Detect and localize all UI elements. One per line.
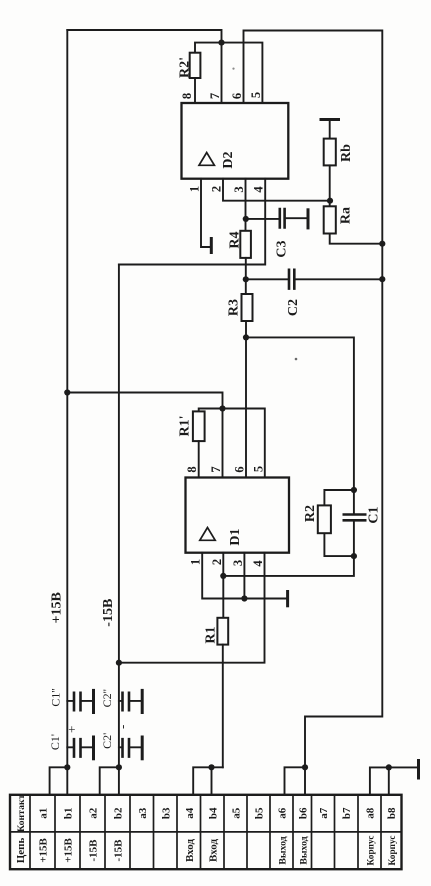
node Ra/Rb/D2 pin2 — [327, 198, 333, 204]
capacitor C2' — [119, 746, 141, 748]
svg-text:C3: C3 — [275, 240, 290, 257]
wire R1' top to D1 pin5 (y=408.5 link) — [199, 409, 265, 478]
svg-text:D1: D1 — [228, 528, 243, 545]
wire D1 pin8 to R1' bottom — [198, 441, 200, 477]
wire D2 pin3 to R4 — [245, 179, 247, 231]
node D1 pin7/R1'/pin5 — [219, 405, 225, 411]
wire D2 pin2 to Ra/Rb node — [223, 179, 330, 201]
wire Rb top stub — [329, 120, 331, 139]
wire D1 pin2 through R1 to input — [222, 553, 224, 618]
svg-text:b6: b6 — [298, 807, 310, 819]
node R4/C2/R3 — [243, 276, 249, 282]
table middle horizontal line — [10, 831, 402, 833]
wire C2 right stub to right rail — [295, 278, 382, 280]
svg-text:R4: R4 — [228, 231, 243, 248]
wire +15V rail (left outer) — [66, 30, 68, 795]
svg-text:8: 8 — [185, 466, 199, 472]
svg-text:-15В: -15В — [101, 599, 116, 627]
svg-text:3: 3 — [232, 186, 246, 192]
svg-text:a8: a8 — [365, 807, 377, 819]
wire connector a4/b4 input — [193, 767, 223, 795]
wire +15V rail to D1 pin7 — [67, 393, 222, 478]
svg-text:C1': C1' — [48, 734, 62, 750]
svg-text:C2: C2 — [286, 299, 301, 316]
svg-text:a4: a4 — [184, 807, 196, 819]
svg-text:a2: a2 — [88, 807, 100, 819]
speck artifact 2 — [295, 358, 298, 361]
svg-text:+15В: +15В — [63, 838, 75, 863]
node C1/R2 top — [351, 487, 357, 493]
wire C3 left stub — [246, 218, 279, 220]
ground bar (C3) — [307, 210, 310, 228]
svg-text:C2': C2' — [100, 733, 114, 749]
svg-text:b1: b1 — [63, 807, 75, 819]
svg-text:a1: a1 — [38, 808, 50, 819]
table column lines — [30, 795, 381, 869]
wire connector a6/b6 output — [285, 767, 306, 795]
wire connector a2/b2 to -15V rail — [100, 767, 119, 795]
svg-text:a3: a3 — [137, 807, 149, 819]
svg-text:b7: b7 — [341, 807, 353, 819]
svg-text:Ra: Ra — [339, 207, 354, 224]
svg-text:7: 7 — [208, 93, 222, 99]
wire connector a8/b8 chassis — [370, 767, 418, 794]
resistor R1 — [217, 618, 228, 645]
wire D1 pin4 to -15V rail — [119, 553, 265, 663]
svg-text:1: 1 — [189, 559, 203, 565]
node +15V at connector — [64, 764, 70, 770]
capacitor C2 — [289, 270, 294, 289]
node Ra bottom on right rail — [379, 241, 385, 247]
svg-text:Корпус: Корпус — [388, 836, 398, 866]
resistor R1' — [193, 411, 205, 441]
svg-text:R2': R2' — [178, 57, 193, 78]
resistor R4 — [240, 231, 251, 258]
svg-text:b5: b5 — [254, 807, 266, 819]
op-amp D2 triangle — [199, 153, 214, 166]
svg-text:R1': R1' — [178, 416, 193, 437]
terminal bar (C1'') — [92, 690, 95, 712]
node +15V to D1 pin7 — [64, 389, 70, 395]
wire R2' top to D2 pin5 (y=42.6 link) — [195, 43, 262, 103]
table header text — [15, 794, 398, 865]
terminal bar (C2') — [141, 737, 144, 759]
svg-text:+: + — [64, 726, 79, 733]
svg-text:a6: a6 — [277, 807, 289, 819]
wire -15V rail — [118, 265, 120, 795]
svg-text:6: 6 — [230, 93, 244, 99]
terminal bar (C2'') — [141, 690, 144, 712]
svg-text:R2: R2 — [303, 505, 318, 522]
svg-text:Вход: Вход — [207, 839, 219, 862]
wire C2 left stub from node — [246, 278, 289, 280]
ground bar (D2 pin1) — [210, 239, 213, 253]
wire top line from +15V rail to D2 pin7 — [67, 30, 221, 103]
terminal bar (C1') — [92, 737, 95, 759]
svg-text:b8: b8 — [386, 807, 398, 819]
svg-text:-: - — [115, 725, 130, 729]
wire Rb bottom to node — [329, 165, 331, 206]
wire R1 bottom to input connector — [222, 645, 224, 768]
node output b6 — [302, 764, 308, 770]
wire C1 bottom to node — [223, 521, 354, 576]
svg-text:1: 1 — [188, 186, 202, 192]
svg-text:b2: b2 — [113, 807, 125, 819]
svg-text:Корпус: Корпус — [367, 836, 377, 866]
node R3/D1 pin6 feedback — [243, 334, 249, 340]
resistor Ra — [324, 206, 336, 233]
svg-text:+15В: +15В — [50, 592, 65, 623]
wire D2 pin8 to R2' bottom — [194, 78, 196, 103]
capacitor C1' — [67, 746, 92, 748]
svg-text:Выход: Выход — [299, 836, 310, 864]
resistor R2' — [190, 53, 201, 78]
svg-text:2: 2 — [210, 559, 224, 565]
wire D1 pin3 — [243, 553, 245, 599]
svg-text:Цепь: Цепь — [15, 838, 27, 864]
node D1 pin2 — [220, 573, 226, 579]
svg-text:Rb: Rb — [339, 144, 354, 162]
node -15V at connector — [116, 764, 122, 770]
svg-text:Выход: Выход — [278, 836, 289, 864]
wire R3 bottom to D1 pin6 — [245, 321, 247, 478]
wire R2 loop — [324, 490, 354, 556]
node chassis b8 — [386, 764, 392, 770]
node C2 right on right rail — [379, 276, 385, 282]
svg-text:+15В: +15В — [38, 838, 50, 863]
connector table — [10, 795, 402, 869]
svg-text:C1'': C1'' — [49, 688, 63, 706]
wire D2 pin4 to -15V rail — [119, 179, 265, 265]
svg-text:D2: D2 — [221, 151, 236, 168]
node C1/R2 bottom — [351, 553, 357, 559]
svg-text:7: 7 — [209, 466, 223, 472]
op-amp D2 body — [182, 103, 289, 179]
svg-text:Вход: Вход — [184, 839, 196, 862]
terminal bar above Rb — [321, 118, 339, 121]
svg-text:b4: b4 — [207, 807, 219, 819]
svg-text:-15В: -15В — [88, 839, 100, 862]
svg-text:5: 5 — [249, 92, 263, 98]
node -15V / D1 pin4 — [116, 660, 122, 666]
wire C3 right stub to common bar — [285, 217, 307, 219]
svg-text:C1: C1 — [367, 506, 382, 523]
svg-text:5: 5 — [251, 466, 265, 472]
wire connector a1/b1 to +15V rail — [50, 767, 68, 795]
terminal bar (chassis) — [417, 761, 420, 779]
table outer frame — [10, 795, 402, 869]
wire D2 pin1 to ground — [201, 179, 211, 247]
svg-text:6: 6 — [233, 466, 247, 472]
svg-text:8: 8 — [180, 93, 194, 99]
resistor Rb — [324, 139, 336, 166]
svg-text:b3: b3 — [160, 807, 172, 819]
op-amp D1 triangle — [200, 528, 215, 541]
resistor R2 — [318, 505, 331, 533]
op-amp D1 body — [186, 478, 290, 553]
capacitor C2'' — [119, 700, 141, 702]
svg-text:2: 2 — [210, 186, 224, 192]
svg-text:3: 3 — [231, 560, 245, 566]
svg-text:R3: R3 — [227, 299, 242, 316]
node D1 pin3 ground link — [241, 595, 247, 601]
svg-text:R1: R1 — [204, 626, 219, 643]
svg-text:-15В: -15В — [113, 839, 125, 862]
ground bar (D1) — [286, 592, 289, 606]
svg-text:a7: a7 — [318, 807, 330, 819]
node D2 pin3/C3/R4 — [243, 216, 249, 222]
capacitor C3 — [280, 209, 285, 228]
svg-text:a5: a5 — [231, 807, 243, 819]
wire feedback node to C1/R2 top — [246, 337, 354, 513]
node input b4 — [208, 764, 214, 770]
node D2 pin7/R2'/pin5 — [218, 40, 224, 46]
speck artifact 1 — [232, 68, 234, 70]
svg-text:4: 4 — [252, 186, 266, 193]
wire R4 bottom to C2/R3 node — [245, 258, 247, 294]
wire D1 pin1/pin3 to ground — [202, 553, 286, 599]
svg-text:Контакт: Контакт — [16, 794, 27, 832]
wire D2 pin6 to right rail (output net top) — [244, 31, 383, 768]
svg-text:4: 4 — [251, 560, 265, 567]
resistor R3 — [242, 294, 253, 321]
svg-text:C2'': C2'' — [100, 689, 114, 707]
capacitor C1'' — [67, 700, 92, 702]
capacitor C1 — [344, 515, 365, 521]
wire Ra bottom to right rail — [330, 234, 383, 244]
